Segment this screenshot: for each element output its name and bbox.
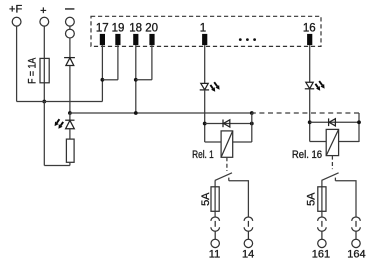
wire coil 16 right [339, 141, 359, 143]
switch blade Rel.1 [215, 173, 232, 181]
svg-text:161: 161 [312, 249, 330, 261]
terminal +F [12, 17, 21, 26]
node minus rail relay1 [250, 111, 254, 115]
LED power [65, 120, 74, 129]
svg-text:F = 1A: F = 1A [26, 57, 38, 84]
wire between − terminals [69, 26, 71, 29]
terminal − upper [66, 17, 75, 26]
wire LED to resistor [69, 129, 71, 139]
terminal + [40, 17, 49, 26]
contact seat Rel.1 [228, 178, 230, 181]
wire diode to minus rail [69, 66, 71, 114]
contact seat Rel.16 [334, 178, 336, 181]
svg-text:18: 18 [129, 22, 142, 34]
wire 17 down [101, 45, 103, 101]
wire rail right down [251, 113, 253, 142]
node coil rail 16 right [357, 120, 361, 124]
wire coil rail [205, 123, 252, 125]
svg-text:17: 17 [96, 22, 109, 34]
switch blade Rel.16 [322, 173, 339, 181]
LED channel 16 [305, 82, 314, 89]
svg-text:164: 164 [347, 249, 365, 261]
wire resistor to return [69, 162, 71, 165]
resistor R1 [66, 139, 74, 162]
fuse 5A Rel.16 [318, 187, 326, 212]
terminal mark 17 [100, 34, 105, 45]
wire NO Rel.16 [335, 181, 356, 218]
wire 19 to 17 [102, 79, 118, 81]
svg-text:5A: 5A [200, 192, 212, 206]
wire 20 to 18 [136, 79, 152, 81]
terminal mark 18 [133, 34, 138, 45]
relay coil Rel.16 [326, 129, 338, 155]
linkage Rel.1 [226, 157, 228, 171]
svg-text:20: 20 [145, 22, 158, 34]
wire rail to power LED [69, 113, 71, 120]
wire coil right [233, 141, 252, 143]
connector 11 [211, 217, 220, 239]
svg-text:1: 1 [200, 22, 206, 34]
node coil rail right [250, 122, 254, 126]
node coil rail left [203, 122, 207, 126]
LED 1 arrows [210, 82, 219, 92]
wire LED return [44, 165, 70, 167]
wire fuse to connector Rel.1 [214, 211, 216, 217]
wire 18 down [135, 45, 137, 113]
wire LED16 down [309, 89, 311, 142]
linkage Rel.16 [331, 156, 333, 170]
connector 14 [244, 217, 253, 239]
svg-text:11: 11 [209, 249, 220, 261]
connector 161 [318, 217, 327, 239]
wire COM Rel.1 [214, 180, 216, 211]
wire +F down [16, 26, 18, 101]
node minus rail [68, 111, 72, 115]
wire minus rail [70, 112, 252, 114]
node coil rail 16 left [308, 120, 312, 124]
fuse 5A Rel.1 [211, 187, 219, 212]
svg-text:Rel. 1: Rel. 1 [192, 149, 214, 161]
svg-text:+F: +F [9, 4, 22, 16]
diode D1 [64, 58, 75, 66]
wire + down to return [43, 102, 45, 166]
wire rail corner 16 [358, 113, 360, 142]
wire coil left [205, 141, 221, 143]
wire COM Rel.16 [321, 180, 323, 211]
terminal mark 1 [202, 34, 207, 45]
LED channel 1 [200, 83, 209, 90]
svg-text:19: 19 [112, 22, 125, 34]
wire coil 16 left [310, 141, 327, 143]
wire +F rail [17, 101, 103, 103]
svg-text:5A: 5A [306, 192, 318, 206]
terminal − lower [66, 29, 75, 38]
terminal mark 19 [115, 34, 120, 45]
terminal 11 [211, 239, 219, 247]
terminal 14 [244, 239, 252, 247]
node fuse rail [42, 100, 46, 104]
fuse F1 [40, 58, 49, 82]
wire 1 down [204, 45, 206, 83]
wire 16 down [309, 45, 311, 82]
node 17/19 [101, 78, 105, 82]
diode D2 freewheel [223, 120, 230, 128]
terminal mark 20 [149, 34, 154, 45]
LED power arrows [55, 119, 64, 129]
terminal 164 [352, 239, 360, 247]
svg-text:14: 14 [242, 249, 254, 261]
terminal mark 16 [307, 34, 312, 45]
connector 164 [352, 217, 361, 239]
wire NO Rel.1 [229, 181, 249, 218]
svg-text:Rel. 16: Rel. 16 [292, 149, 322, 161]
wire 19 down [117, 45, 119, 80]
wire 20 down [151, 45, 153, 80]
LED 16 arrows [315, 81, 324, 91]
terminal strip box [91, 16, 321, 46]
wire LED1 down [204, 90, 206, 142]
relay coil Rel.1 [221, 131, 233, 157]
node 18 rail [134, 111, 138, 115]
wire coil rail 16 [310, 121, 359, 123]
svg-text:+: + [40, 5, 46, 17]
diode D3 freewheel [329, 118, 336, 126]
wire + down through fuse [43, 26, 45, 101]
wire − down [69, 38, 71, 58]
terminal 161 [318, 239, 326, 247]
wire minus rail dashed [252, 112, 359, 114]
wire fuse to connector Rel.16 [321, 211, 323, 217]
node 18/20 [134, 78, 138, 82]
ellipsis dots [239, 38, 256, 41]
svg-text:16: 16 [303, 22, 316, 34]
label − [65, 8, 74, 10]
